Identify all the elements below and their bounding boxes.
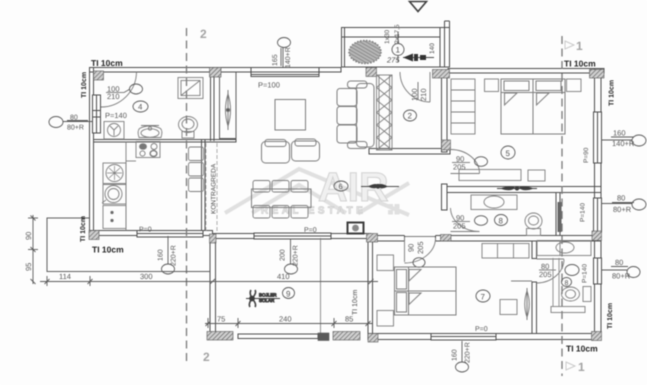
door bedroom1 label 90/205 — [452, 155, 488, 172]
bath2 screen — [553, 258, 559, 306]
leader window left 80/80+R — [49, 117, 92, 128]
window left wall 80 — [93, 95, 101, 133]
pillar dark terrace — [318, 333, 329, 341]
column hatch top-right corner — [590, 70, 605, 79]
svg-text:8: 8 — [499, 217, 504, 226]
column hatch left wall bottom — [89, 231, 99, 240]
wall lower wing west — [368, 238, 373, 338]
door bedroom1 arc — [451, 150, 480, 174]
svg-text:5: 5 — [506, 149, 511, 158]
svg-text:TI 10cm: TI 10cm — [352, 290, 359, 315]
floor box outlet — [348, 223, 364, 234]
svg-text:80+R: 80+R — [613, 205, 632, 214]
leader window right1 160/140+R — [601, 135, 646, 146]
kitchen stove — [136, 142, 160, 158]
armchair 2 — [292, 139, 320, 161]
dining chairs top — [253, 181, 308, 193]
wall right outer — [595, 69, 602, 340]
svg-text:9: 9 — [286, 290, 291, 299]
shower cabin — [178, 78, 203, 99]
svg-text:2: 2 — [200, 27, 207, 41]
washing machine — [104, 122, 124, 140]
svg-text:80+R: 80+R — [67, 125, 84, 132]
door entry hall arc — [400, 72, 430, 102]
svg-text:P=100: P=100 — [258, 81, 280, 90]
svg-text:BOJLER: BOJLER — [259, 293, 277, 298]
kitchen pot sink — [102, 186, 122, 204]
svg-text:80+R: 80+R — [612, 272, 631, 281]
svg-text:1: 1 — [396, 46, 401, 55]
svg-text:2x17,5: 2x17,5 — [394, 24, 401, 44]
niche radiator living — [220, 72, 237, 139]
bedroom1 nightstand left — [485, 79, 499, 92]
svg-text:P=140: P=140 — [105, 111, 127, 120]
window P=0 living terrace — [254, 233, 331, 239]
bedroom2 double bed — [395, 267, 457, 315]
window P=0 kitchen — [137, 231, 203, 238]
room number 2 — [404, 110, 417, 121]
wall lower wing north — [371, 235, 601, 242]
svg-text:P=90: P=90 — [583, 147, 590, 163]
bedroom1 double bed — [501, 79, 565, 134]
svg-text:165: 165 — [272, 54, 279, 66]
svg-text:220+R: 220+R — [465, 342, 472, 363]
column hatch hall wall — [442, 140, 451, 150]
svg-text:4: 4 — [138, 103, 143, 112]
wall left outer — [90, 68, 94, 236]
laundry counter — [537, 241, 591, 256]
svg-text:8: 8 — [565, 280, 569, 287]
column hatch terrace sw — [207, 332, 233, 341]
bedroom2 nightstand bottom — [377, 311, 394, 327]
bedroom1 nightstand right — [567, 79, 582, 92]
svg-text:TI 10cm: TI 10cm — [81, 72, 88, 98]
door bedroom2 leaf and arc — [405, 237, 436, 263]
room number 1 — [392, 32, 404, 62]
room number 6 — [334, 181, 348, 191]
wall bottom kitchen — [90, 231, 213, 236]
svg-text:P=140: P=140 — [580, 203, 587, 222]
svg-text:90: 90 — [24, 232, 33, 240]
bedroom1 shelf unit — [451, 79, 475, 134]
svg-text:80: 80 — [617, 194, 625, 203]
column hatch top wall x210 — [210, 68, 222, 78]
bath2 shelf — [551, 307, 585, 313]
svg-text:240: 240 — [279, 315, 292, 324]
bedroom2 shelf line — [511, 280, 532, 282]
armchair 1 — [262, 140, 290, 164]
svg-text:TI 10cm: TI 10cm — [607, 303, 614, 329]
toilet bath top-left — [179, 117, 198, 139]
bedroom2 tv — [525, 288, 530, 320]
svg-text:1: 1 — [578, 360, 585, 374]
section label 1 bottom — [566, 360, 585, 374]
column hatch right wall mid — [592, 231, 602, 241]
svg-text:160: 160 — [158, 249, 165, 261]
svg-text:TI 10cm: TI 10cm — [91, 58, 123, 68]
window P=0 bedroom2 — [431, 334, 496, 341]
wall top left wing — [90, 68, 342, 73]
leader window top 165/140+R — [278, 38, 291, 68]
door entry label 100/210 rotated — [410, 82, 428, 101]
washbasin bath top-left — [138, 126, 162, 138]
wall top right wing — [448, 69, 604, 74]
leader window right3 80/80+R — [601, 267, 640, 278]
section label 1 top — [565, 39, 583, 53]
column hatch living south x367 — [367, 234, 378, 243]
svg-text:KONTRAGREDA: KONTRAGREDA — [211, 163, 218, 214]
svg-text:114: 114 — [59, 272, 71, 281]
svg-text:P=0: P=0 — [475, 326, 488, 333]
room number 9 — [283, 288, 295, 299]
door bath top-left arc — [101, 72, 137, 107]
door bath label 100/210 — [106, 84, 143, 101]
room number 4 — [133, 101, 148, 112]
column hatch terrace se — [333, 332, 360, 341]
door bath1 label 90/205 — [452, 214, 488, 231]
column hatch terrace wall top — [210, 234, 217, 243]
fan bedroom wall — [497, 186, 537, 191]
room number 5 — [501, 146, 515, 159]
svg-text:TI 10cm: TI 10cm — [80, 216, 87, 242]
svg-text:200: 200 — [280, 249, 287, 261]
svg-text:160: 160 — [452, 349, 459, 361]
svg-text:220+R: 220+R — [293, 245, 300, 266]
kitchen sink round — [106, 165, 123, 182]
kontragreda band — [206, 143, 217, 232]
porch doormat bush — [349, 41, 381, 64]
dark duct bar — [558, 202, 562, 232]
coffee table — [275, 100, 306, 131]
column hatch lower wing door — [441, 235, 452, 242]
bath1 toilet — [525, 213, 542, 236]
terrace railing — [238, 334, 318, 339]
watermark logo roof — [225, 169, 409, 215]
svg-text:SOLAR: SOLAR — [259, 298, 275, 303]
wall divider bath-kitchen — [94, 140, 237, 143]
leader window kitchen 160/220+R — [162, 236, 175, 274]
dimension line terrace — [205, 318, 372, 328]
north triangle — [410, 2, 427, 12]
svg-text:1x30: 1x30 — [384, 30, 391, 44]
dining table — [252, 189, 312, 208]
window right bath1 — [594, 198, 602, 232]
wall below stairs — [369, 149, 450, 155]
svg-text:6: 6 — [339, 182, 343, 191]
svg-text:205: 205 — [539, 270, 552, 279]
dimension line bottom left — [40, 276, 378, 286]
dining chairs bottom — [253, 206, 308, 219]
fan living — [361, 184, 399, 189]
svg-text:80: 80 — [615, 258, 623, 267]
door bath1 arc — [451, 208, 480, 232]
section line 1 — [561, 36, 563, 376]
svg-text:140+R: 140+R — [285, 47, 292, 68]
svg-text:300: 300 — [140, 272, 153, 281]
column hatch se corner — [592, 332, 602, 341]
room number 8 bath2 — [562, 278, 572, 287]
wall terrace west — [210, 235, 216, 335]
column hatch porch right — [433, 70, 450, 79]
column hatch top wall x366 — [366, 68, 377, 77]
porch stairs arrow — [403, 54, 434, 62]
leader window right2 80/80+R — [601, 199, 646, 210]
terrace ground outline — [47, 218, 210, 272]
svg-text:205: 205 — [453, 222, 466, 231]
svg-text:P=0: P=0 — [139, 227, 152, 234]
kitchen chairs — [189, 147, 204, 192]
leader window living 200/220+R — [285, 239, 298, 274]
window right bath2 — [594, 258, 602, 284]
watermark pixel squares — [388, 204, 400, 215]
svg-text:160: 160 — [613, 129, 626, 138]
wall bathroom east — [211, 72, 215, 141]
room number 7 — [476, 290, 490, 302]
svg-text:2: 2 — [203, 350, 210, 364]
bath1 vanity — [471, 195, 517, 210]
svg-text:7: 7 — [481, 293, 486, 302]
dimension line left vertical — [28, 215, 38, 284]
column hatch top-left — [94, 71, 104, 80]
door bedroom2 label 90/205 rotated — [407, 241, 426, 267]
stairs flight — [377, 75, 393, 150]
kitchen counter column — [103, 142, 136, 231]
svg-text:1: 1 — [576, 39, 583, 53]
wall hall-bedroom east segments — [442, 72, 448, 210]
svg-text:2: 2 — [408, 112, 413, 121]
column hatch bedroom2 sw — [368, 334, 378, 343]
svg-text:90: 90 — [407, 244, 416, 252]
hatch blocks — [89, 68, 604, 343]
window right bedroom1 — [594, 112, 602, 163]
terrace plant glyph — [246, 290, 280, 307]
wall lower wing south — [368, 334, 601, 340]
wall kitchen east — [202, 140, 206, 231]
wall bottom living — [213, 234, 372, 239]
wall bedroom-bath divider — [447, 187, 601, 193]
kitchen cabinet dots — [110, 211, 113, 222]
svg-text:210: 210 — [419, 88, 428, 101]
svg-text:205: 205 — [416, 241, 425, 254]
bedroom2 desk — [500, 300, 517, 315]
svg-text:TI 10cm: TI 10cm — [609, 80, 616, 106]
wall bedroom2 east segments — [532, 241, 537, 334]
radiator living west — [226, 90, 231, 130]
section line 2 — [186, 28, 188, 365]
wall bath1 east partition — [556, 193, 560, 236]
door bath2 leaf and arc — [537, 259, 565, 283]
room number 8 bath1 — [495, 215, 508, 226]
svg-text:140+R: 140+R — [612, 139, 635, 148]
bedroom2 wardrobe — [482, 244, 529, 259]
svg-text:140: 140 — [429, 43, 436, 54]
svg-text:TI 10cm: TI 10cm — [564, 59, 596, 69]
svg-text:75: 75 — [217, 315, 225, 324]
svg-text:80: 80 — [70, 115, 78, 122]
bedroom2 nightstand top — [377, 255, 394, 271]
svg-text:TI 10cm: TI 10cm — [92, 245, 124, 255]
svg-text:275: 275 — [386, 56, 400, 65]
leader window bedroom2 160/220+R — [456, 341, 469, 372]
terrace edge line — [320, 238, 322, 333]
svg-text:220+R: 220+R — [171, 245, 178, 266]
window P=100 top wall — [251, 68, 319, 77]
svg-text:P=0: P=0 — [304, 227, 317, 234]
bath2 toilet — [562, 287, 592, 302]
bedroom1 desk — [459, 170, 545, 182]
sofa — [337, 81, 374, 149]
porch walls — [342, 21, 450, 67]
door bath2 label 80/205 — [539, 262, 579, 279]
svg-text:P=140: P=140 — [582, 264, 589, 283]
svg-text:210: 210 — [107, 92, 120, 101]
svg-text:95: 95 — [24, 263, 33, 271]
svg-text:TI 10cm: TI 10cm — [566, 344, 598, 354]
